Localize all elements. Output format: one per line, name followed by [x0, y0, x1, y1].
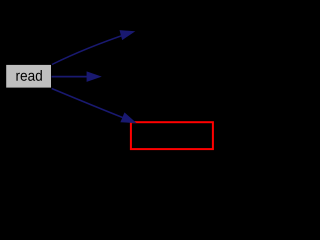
wire: top edge from read [52, 32, 133, 64]
wire: middle edge from read [52, 76, 89, 78]
node read: label [16, 70, 41, 81]
node: red box (truncated callee) [131, 122, 213, 149]
arrowhead of top edge [120, 30, 136, 40]
wire: bottom edge from read [52, 89, 134, 122]
node read: grey box [6, 65, 51, 88]
arrowhead of bottom edge [120, 112, 136, 123]
arrowhead of middle edge [87, 71, 102, 82]
